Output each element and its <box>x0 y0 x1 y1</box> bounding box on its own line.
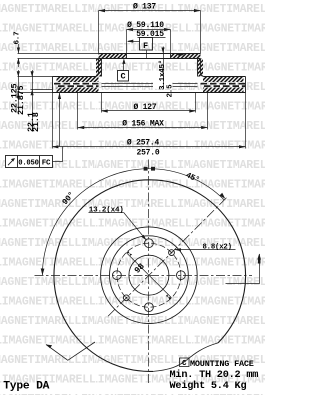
svg-text:C: C <box>182 360 187 368</box>
svg-text:C: C <box>121 72 126 82</box>
svg-text:Ø 156 MAX: Ø 156 MAX <box>122 119 164 128</box>
svg-text:Ø 257.4: Ø 257.4 <box>127 139 160 148</box>
svg-text:21.8: 21.8 <box>31 112 41 132</box>
svg-text:Weight 5.4 Kg: Weight 5.4 Kg <box>170 380 247 392</box>
svg-text:59.015: 59.015 <box>136 30 164 39</box>
svg-text:MOUNTING FACE: MOUNTING FACE <box>190 359 254 369</box>
svg-text:8.8(x2): 8.8(x2) <box>203 244 232 252</box>
svg-text:F: F <box>143 41 148 51</box>
svg-text:13.2(x4): 13.2(x4) <box>89 207 124 215</box>
svg-text:FC: FC <box>42 159 51 167</box>
svg-text:Type DA: Type DA <box>3 381 49 393</box>
svg-text:Ø 137: Ø 137 <box>133 3 156 12</box>
svg-text:Min. TH 20.2 mm: Min. TH 20.2 mm <box>170 369 259 381</box>
svg-text:Ø 127: Ø 127 <box>133 103 156 112</box>
svg-text:0.050: 0.050 <box>18 159 39 167</box>
svg-text:21.875: 21.875 <box>16 85 26 115</box>
svg-text:257.0: 257.0 <box>136 149 159 158</box>
svg-text:6.7: 6.7 <box>14 32 22 45</box>
svg-text:2.5: 2.5 <box>167 84 175 98</box>
svg-text:Ø 59.110: Ø 59.110 <box>127 21 164 30</box>
